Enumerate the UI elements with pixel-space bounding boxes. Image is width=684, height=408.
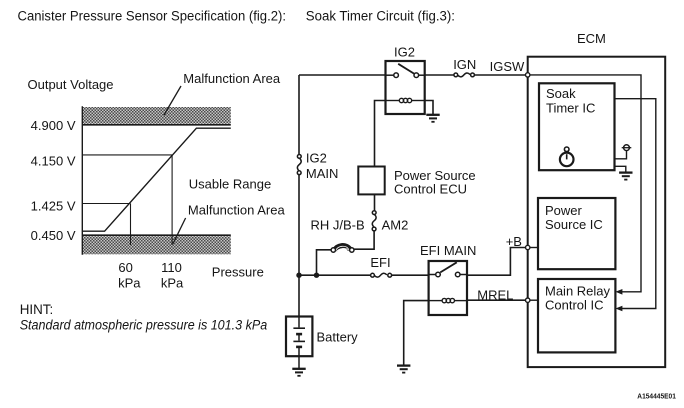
svg-text:Control IC: Control IC xyxy=(545,297,604,312)
svg-text:1.425 V: 1.425 V xyxy=(31,199,76,214)
svg-text:0.450 V: 0.450 V xyxy=(31,228,76,243)
svg-text:MREL: MREL xyxy=(477,288,513,303)
ground (soak timer pin) xyxy=(619,173,632,180)
wire: IG2 coil left lead down to Power Source Control ECU xyxy=(375,101,386,167)
arrowhead into Main Relay Control IC (IGSW) xyxy=(615,289,622,295)
node IGSW terminal xyxy=(526,73,530,77)
battery cells xyxy=(293,317,305,369)
svg-text:Malfunction Area: Malfunction Area xyxy=(188,202,286,217)
svg-text:IG2: IG2 xyxy=(394,45,415,60)
wire: Soak Timer IC output to Main Relay Control IC (feedback) xyxy=(615,99,656,309)
svg-text:IG2: IG2 xyxy=(306,151,327,166)
svg-text:EFI MAIN: EFI MAIN xyxy=(420,243,476,258)
wire: IGSW inside ECM to Main Relay Control IC (feedback) xyxy=(530,75,641,292)
Power Source IC box xyxy=(538,198,615,269)
Main Relay Control IC box xyxy=(538,279,615,352)
svg-text:+B: +B xyxy=(506,234,522,249)
svg-text:IGSW: IGSW xyxy=(490,59,525,74)
node +B terminal xyxy=(526,245,530,249)
svg-text:Canister Pressure Sensor Speci: Canister Pressure Sensor Specification (… xyxy=(18,8,287,23)
svg-text:Control ECU: Control ECU xyxy=(394,181,467,196)
junction dot at RH J/B-B branch xyxy=(314,273,319,278)
fusible link RH J/B-B xyxy=(331,246,354,253)
wire: +B into Power Source IC xyxy=(530,247,538,249)
ground (EFI MAIN coil) xyxy=(397,366,410,373)
wire: IG2 coil right lead to ground xyxy=(425,101,433,115)
wire: EFI fuse to EFI MAIN relay xyxy=(392,274,429,276)
ground (battery) xyxy=(292,369,305,376)
IG2 relay contact right xyxy=(414,73,419,78)
graph y-axis xyxy=(81,106,83,255)
fuse IG2 MAIN xyxy=(297,155,301,175)
svg-text:RH J/B-B: RH J/B-B xyxy=(311,217,365,232)
svg-text:Power: Power xyxy=(545,203,583,218)
arrowhead into Main Relay Control IC (soak timer) xyxy=(615,306,622,312)
fuse EFI xyxy=(371,273,392,277)
wire: EFI MAIN output to +B terminal xyxy=(467,248,526,276)
IG2 relay coil xyxy=(386,98,425,102)
svg-text:HINT:: HINT: xyxy=(20,302,53,317)
svg-text:Soak Timer Circuit (fig.3):: Soak Timer Circuit (fig.3): xyxy=(306,8,455,23)
wire: main bottom rail battery to EFI MAIN relay xyxy=(299,274,371,276)
wire: battery positive rail top horizontal to IG2 relay xyxy=(299,74,386,76)
svg-text:4.900 V: 4.900 V xyxy=(31,118,76,133)
svg-text:Pressure: Pressure xyxy=(212,265,264,280)
graph response curve xyxy=(82,128,231,231)
wire stub from IG2 right contact xyxy=(418,74,424,76)
wire: left vertical rail upper segment xyxy=(298,75,300,155)
wire: IG2 relay to IGN fuse xyxy=(425,74,454,76)
svg-text:ECM: ECM xyxy=(577,31,606,46)
wire stub to IG2 left contact xyxy=(386,74,395,76)
svg-text:Timer IC: Timer IC xyxy=(546,101,595,116)
svg-text:kPa: kPa xyxy=(161,275,184,290)
wire: Soak Timer IC pin to connector circle xyxy=(615,151,627,159)
IG2 relay switch blade xyxy=(398,64,414,74)
svg-text:AM2: AM2 xyxy=(382,217,409,232)
svg-text:A154445E01: A154445E01 xyxy=(637,392,676,401)
graph 60 kPa vertical line xyxy=(130,204,132,246)
relay EFI MAIN box xyxy=(429,261,467,315)
svg-text:Output Voltage: Output Voltage xyxy=(28,77,114,92)
EFI MAIN switch blade xyxy=(440,262,457,272)
svg-text:Source IC: Source IC xyxy=(545,217,603,232)
svg-text:kPa: kPa xyxy=(118,275,141,290)
graph 4.900V boundary line xyxy=(82,124,231,126)
graph 4.150V horizontal line xyxy=(82,154,172,156)
wire: left vertical rail lower segment to battery xyxy=(298,175,300,317)
IG2 relay contact left xyxy=(394,73,399,78)
svg-text:IGN: IGN xyxy=(453,57,476,72)
svg-text:EFI: EFI xyxy=(370,255,390,270)
svg-text:Soak: Soak xyxy=(546,86,576,101)
ground (IG2 relay coil) xyxy=(426,115,439,122)
EFI MAIN contact left xyxy=(436,272,441,277)
connector circle terminal xyxy=(622,145,632,151)
wire: IGN fuse to ECM IGSW terminal xyxy=(474,74,525,76)
wire: fusible link to junction xyxy=(317,250,332,275)
graph 0.450V boundary line (top of bottom band) xyxy=(82,234,231,236)
relay IG2 box xyxy=(386,61,425,114)
svg-text:4.150 V: 4.150 V xyxy=(31,153,76,168)
svg-text:110: 110 xyxy=(161,260,182,275)
svg-text:Battery: Battery xyxy=(317,329,359,344)
wire: EFI MAIN coil left lead to ground xyxy=(404,301,429,365)
graph bottom malfunction hatched band xyxy=(82,236,231,254)
wire: Power Source Control ECU down to AM2 fuse xyxy=(374,194,376,210)
timer (stopwatch) icon xyxy=(560,147,574,166)
EFI MAIN contact right xyxy=(455,272,460,277)
Soak Timer IC box xyxy=(539,83,615,170)
wire: Soak Timer IC pin to ground xyxy=(615,166,626,172)
wire stub to EFI MAIN left contact xyxy=(429,274,436,276)
svg-text:Malfunction Area: Malfunction Area xyxy=(183,71,281,86)
junction dot at battery rail xyxy=(296,273,301,278)
Power Source Control ECU box xyxy=(358,167,384,195)
svg-text:Main Relay: Main Relay xyxy=(545,284,611,299)
node MREL terminal xyxy=(526,298,530,302)
fuse AM2 xyxy=(372,211,376,231)
leader line to bottom malfunction band xyxy=(173,218,186,244)
svg-text:Standard atmospheric pressure: Standard atmospheric pressure is 101.3 k… xyxy=(20,318,268,333)
svg-text:Usable Range: Usable Range xyxy=(189,177,271,192)
wire: MREL into Main Relay Control IC xyxy=(530,299,538,301)
graph 1.425V horizontal line xyxy=(82,203,130,205)
graph top malfunction hatched band xyxy=(82,107,231,124)
ECM box xyxy=(528,57,666,367)
wire: AM2 fuse to fusible link corner xyxy=(354,231,374,249)
leader line to top malfunction band xyxy=(164,86,181,115)
svg-text:MAIN: MAIN xyxy=(306,166,339,181)
battery box xyxy=(286,317,312,357)
wire stub from EFI MAIN right contact xyxy=(460,274,467,276)
graph 110 kPa vertical line xyxy=(171,155,173,245)
EFI MAIN relay coil xyxy=(429,298,467,302)
wire: EFI MAIN coil right to MREL terminal xyxy=(467,299,526,301)
svg-text:60: 60 xyxy=(118,260,132,275)
fuse IGN xyxy=(454,73,475,77)
